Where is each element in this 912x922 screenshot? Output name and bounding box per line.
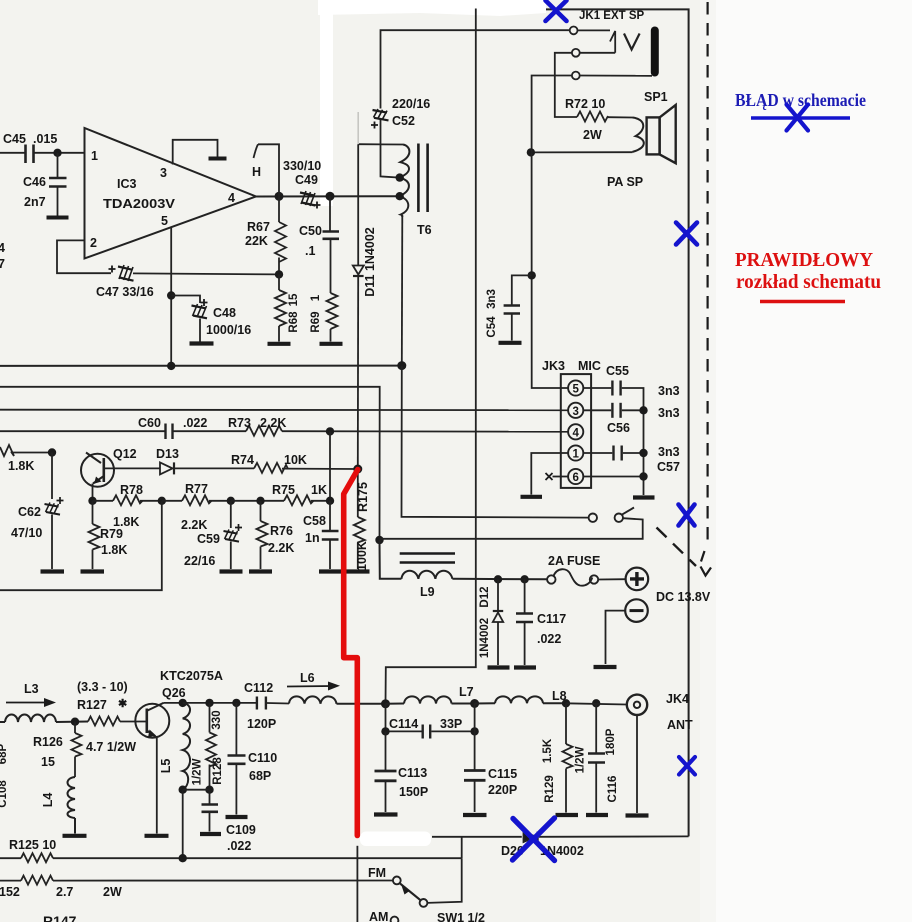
resistor R127 <box>88 717 146 726</box>
svg-text:L3: L3 <box>24 682 39 696</box>
ground (C116) <box>586 813 608 817</box>
svg-text:68P: 68P <box>0 743 9 764</box>
capacitor C58 <box>322 501 339 569</box>
svg-text:rozkład schematu: rozkład schematu <box>736 272 881 293</box>
pin 5 <box>161 214 168 228</box>
svg-text:.022: .022 <box>537 632 561 646</box>
wire L8 to JK4 <box>566 703 627 704</box>
wire minus to ground <box>606 611 626 664</box>
node supply bus T6 <box>397 361 406 370</box>
label PA SP <box>607 175 643 189</box>
node supply bus pin5 <box>167 362 175 370</box>
mic bus y410 <box>0 409 568 412</box>
svg-text:1/2W: 1/2W <box>192 758 204 785</box>
dashed mechanical link <box>657 528 697 567</box>
wire Q12 emitter to R78 row <box>92 484 94 501</box>
inductor L9 core bars <box>400 554 455 563</box>
pin 3 <box>160 166 167 180</box>
DC jack minus terminal <box>625 599 648 622</box>
node C57 <box>639 449 647 457</box>
svg-text:C46: C46 <box>23 175 46 189</box>
wire D11 top feed <box>358 143 403 145</box>
resistor R72 <box>577 112 633 122</box>
svg-text:R72 10: R72 10 <box>565 97 605 111</box>
svg-text:R78: R78 <box>120 483 143 497</box>
wire node down to mic pin5 <box>532 152 568 388</box>
resistor R77 <box>162 495 231 505</box>
svg-text:Q12: Q12 <box>113 447 137 461</box>
svg-text:R128: R128 <box>212 757 224 785</box>
label Q12 <box>113 447 137 461</box>
svg-text:2: 2 <box>90 236 97 250</box>
capacitor C113 <box>375 731 397 812</box>
svg-text:C115: C115 <box>488 767 517 781</box>
capacitor C114 <box>423 725 475 739</box>
svg-text:180P: 180P <box>605 728 617 755</box>
resistor R175 <box>354 469 365 569</box>
wire contact3 to sleeve <box>580 75 652 77</box>
label R67 22K <box>245 220 270 248</box>
ground (R129) <box>556 813 579 817</box>
red corrected-path line <box>344 470 358 836</box>
wire R77 to R75 <box>231 500 284 502</box>
label R74 10K <box>231 453 307 467</box>
svg-text:MIC: MIC <box>578 359 601 373</box>
speaker SP1 body <box>647 105 676 163</box>
svg-text:152: 152 <box>0 885 20 899</box>
svg-text:KTC2075A: KTC2075A <box>160 669 223 683</box>
electrolytic capacitor C59 <box>224 501 243 569</box>
svg-text:FM: FM <box>368 866 386 880</box>
label C45 .015 <box>3 132 57 146</box>
label C114 33P <box>389 717 462 731</box>
svg-text:3n3: 3n3 <box>658 445 680 459</box>
svg-text:34: 34 <box>0 241 5 255</box>
label C62 47/10 <box>11 505 42 540</box>
jack JK1 contact 1 <box>570 27 578 35</box>
DC jack plus terminal <box>626 568 649 591</box>
svg-text:R75: R75 <box>272 483 295 497</box>
svg-text:L5: L5 <box>159 759 173 774</box>
transistor Q26 KTC2075A <box>135 703 169 738</box>
resistor R75 <box>284 495 330 505</box>
label 3n3 (C55) <box>658 384 680 398</box>
svg-text:C47 33/16: C47 33/16 <box>96 285 154 299</box>
bootstrap hook H <box>254 144 280 196</box>
label 330/10 C49 <box>283 159 321 187</box>
resistor R76 <box>257 501 268 569</box>
label C48 1000/16 <box>206 306 251 337</box>
capacitor C117 <box>516 579 533 665</box>
jack JK1 contact 2 <box>572 49 580 57</box>
node L6/L7/C114 <box>381 699 390 708</box>
svg-text:2n7: 2n7 <box>24 195 46 209</box>
wire speaker return <box>531 151 633 153</box>
op-amp IC3 TDA2003V triangle <box>85 128 257 259</box>
plug spring V <box>624 34 640 50</box>
svg-text:L7: L7 <box>459 685 474 699</box>
svg-text:L6: L6 <box>300 671 315 685</box>
inductor L3 <box>0 715 88 723</box>
svg-text:JK4: JK4 <box>666 692 689 706</box>
label JK1 EXT SP <box>579 10 645 22</box>
svg-text:100K: 100K <box>355 541 369 571</box>
node T6 tap output <box>396 192 404 200</box>
label 2A FUSE <box>548 554 600 568</box>
svg-text:330/10: 330/10 <box>283 159 321 173</box>
ground (C column) <box>633 495 655 499</box>
svg-text:PA SP: PA SP <box>607 175 643 189</box>
wire pin6 stub with x mark <box>546 473 569 480</box>
label R77 2.2K <box>181 482 208 532</box>
svg-text:2.7: 2.7 <box>56 885 73 899</box>
label C117 .022 <box>537 612 566 646</box>
label 1.5K R129 1/2W (rotated) <box>542 738 587 803</box>
label 220/16 C52 <box>392 97 430 128</box>
node A (C45/C46/pin1 junction) <box>53 149 61 157</box>
node R128 top <box>205 699 213 707</box>
diode D13 <box>105 462 255 474</box>
label C108 68P (rotated, page edge) <box>0 743 9 807</box>
capacitor C56 <box>583 403 643 418</box>
resistor R128 <box>206 703 216 790</box>
ground (C46) <box>47 216 69 220</box>
label 3n3 (C57) <box>658 445 680 459</box>
svg-text:R125 10: R125 10 <box>9 838 56 852</box>
label D20 1N4002 <box>501 844 584 858</box>
svg-text:2A FUSE: 2A FUSE <box>548 554 600 568</box>
svg-text:R175: R175 <box>356 482 370 512</box>
annotation BLAD w schemacie <box>735 90 866 110</box>
wire fuse to DC plus <box>598 578 625 580</box>
node C110 top <box>232 699 240 707</box>
left edge resistor 1.8K (partial) <box>0 445 52 456</box>
blue X mark right border upper <box>676 223 697 245</box>
svg-text:3: 3 <box>572 406 578 418</box>
node Q12 emitter / R78 / R79 <box>88 497 96 505</box>
wire Q26 emitter <box>156 738 158 834</box>
label C55 <box>606 364 629 378</box>
capacitor C60 <box>166 424 247 440</box>
resistor R67 <box>275 196 286 274</box>
wire T6 bottom to supply node <box>401 215 404 366</box>
dashed chassis boundary <box>701 2 712 576</box>
svg-text:R77: R77 <box>185 482 208 496</box>
wire switch return y538.5 <box>380 518 643 539</box>
svg-text:D12: D12 <box>479 586 491 607</box>
svg-text:C57: C57 <box>657 460 680 474</box>
svg-text:.022: .022 <box>183 416 207 430</box>
svg-text:SP1: SP1 <box>644 90 668 104</box>
svg-text:R67: R67 <box>247 220 270 234</box>
svg-text:T6: T6 <box>417 223 432 237</box>
capacitor C62 <box>45 453 64 570</box>
svg-text:SW1 1/2: SW1 1/2 <box>437 911 485 922</box>
label C56 <box>607 421 630 435</box>
wire contact2 to tip <box>580 52 616 54</box>
svg-text:22K: 22K <box>245 234 268 248</box>
node pin6 column <box>639 472 647 480</box>
wire D20 branch down to bus A <box>461 837 463 858</box>
svg-text:AM: AM <box>369 910 388 922</box>
wire supply to power switch <box>402 366 589 518</box>
svg-text:2.2K: 2.2K <box>268 541 294 555</box>
label DC 13.8V <box>656 590 711 604</box>
node R78/R77 <box>158 497 166 505</box>
mic pin 6 <box>568 469 583 484</box>
svg-text:2W: 2W <box>103 885 122 899</box>
svg-text:10K: 10K <box>284 453 307 467</box>
ground (R69) <box>320 342 343 346</box>
ground (R68) <box>268 342 291 346</box>
wire pin5 to supply bus <box>170 228 172 367</box>
ground (C110) <box>226 815 248 819</box>
diode D12 1N4002 <box>493 579 503 665</box>
node Q12 collector <box>48 448 56 456</box>
label R76 2.2K <box>268 524 294 555</box>
svg-text:5: 5 <box>572 384 579 396</box>
svg-text:R79: R79 <box>100 527 123 541</box>
ground (C109) <box>200 832 221 836</box>
node speaker return / mic feed <box>527 148 535 156</box>
label C110 68P <box>248 751 277 783</box>
wire L5-R128 bottoms <box>183 789 210 791</box>
ground (D12) <box>488 665 510 669</box>
ground (C48) <box>190 341 214 345</box>
inductor L7 <box>386 696 475 703</box>
svg-text:R68: R68 <box>288 311 300 333</box>
label C47 33/16 <box>96 285 154 299</box>
capacitor C115 <box>464 704 486 813</box>
label T6 <box>417 223 432 237</box>
svg-text:1K: 1K <box>311 483 327 497</box>
label R79 1.8K <box>100 527 127 557</box>
ground (DC minus) <box>594 665 617 669</box>
svg-text:C60: C60 <box>138 416 161 430</box>
label R175 100K (rotated) <box>355 482 370 571</box>
svg-text:D11 1N4002: D11 1N4002 <box>363 227 377 297</box>
label R72 10 2W <box>565 97 605 142</box>
svg-text:Q26: Q26 <box>162 686 186 700</box>
svg-text:2.2K: 2.2K <box>260 416 286 430</box>
pin 1 <box>91 149 98 163</box>
node switch-return/L9 junction <box>375 536 383 544</box>
chassis border top <box>546 9 689 836</box>
mic bus y431 left segment <box>0 430 165 432</box>
svg-text:4: 4 <box>572 427 579 439</box>
label R69 1 (rotated) <box>310 294 322 332</box>
svg-text:3n3: 3n3 <box>658 384 680 398</box>
wire L5 bottom to bus <box>182 790 184 859</box>
svg-text:220P: 220P <box>488 783 517 797</box>
node T6 tap C52 <box>396 173 404 181</box>
svg-text:6: 6 <box>572 472 578 484</box>
capacitor C112 <box>257 697 289 710</box>
white-out blob bottom <box>360 832 431 847</box>
resistor R73 <box>246 426 568 436</box>
mic pin 1 <box>568 445 583 460</box>
svg-text:C117: C117 <box>537 612 566 626</box>
svg-text:68P: 68P <box>249 769 271 783</box>
svg-text:C114: C114 <box>389 717 418 731</box>
svg-text:C52: C52 <box>392 114 415 128</box>
svg-text:L9: L9 <box>420 585 435 599</box>
label C58 1n <box>303 514 326 545</box>
band switch lever <box>400 883 421 900</box>
label D12 1N4002 (rotated) <box>479 586 491 658</box>
mic pin 3 <box>568 403 583 418</box>
svg-text:C116: C116 <box>607 776 619 803</box>
label C54 3n3 (rotated) <box>486 289 498 337</box>
node R77/C59 <box>227 497 235 505</box>
label D13 <box>156 447 179 461</box>
wire C52 branch / T6 tap <box>381 30 570 177</box>
node C117 <box>520 575 528 583</box>
label L9 <box>420 585 435 599</box>
transistor Q12 <box>81 453 114 487</box>
resistor R74 <box>254 463 358 473</box>
node L7/C115 <box>470 699 479 708</box>
label R126 15 <box>33 735 63 769</box>
svg-text:15: 15 <box>288 293 300 306</box>
label SP1 <box>644 90 668 104</box>
node C56 <box>639 406 647 414</box>
node output/H/R67 <box>275 192 284 201</box>
node L3/R126 <box>71 718 79 726</box>
power switch contacts <box>589 508 634 522</box>
band switch SW1 FM contact <box>393 877 401 885</box>
capacitor C116 <box>588 703 605 812</box>
node R67/R68/C47 <box>275 270 283 278</box>
svg-text:(3.3 - 10): (3.3 - 10) <box>77 680 128 694</box>
svg-text:C55: C55 <box>606 364 629 378</box>
resistor R129 <box>563 703 573 812</box>
node R76 <box>256 497 264 505</box>
svg-text:C110: C110 <box>248 751 277 765</box>
svg-text:JK1 EXT SP: JK1 EXT SP <box>579 10 645 22</box>
bus B y880 with R152 <box>0 876 393 885</box>
node R128 bottom <box>205 786 213 794</box>
label FM <box>368 866 386 880</box>
wire bus A to AM contact <box>427 858 461 903</box>
node C54 tap <box>528 271 536 279</box>
svg-text:C56: C56 <box>607 421 630 435</box>
inductor L8 <box>475 696 566 703</box>
label R125 10 <box>9 838 56 852</box>
ground (pin1) <box>521 495 543 499</box>
collector bus wire <box>164 702 257 704</box>
input coupling capacitor C45 <box>0 145 85 164</box>
svg-text:.1: .1 <box>305 244 315 258</box>
label 152 2.7 2W <box>0 885 122 899</box>
bus A y858 with R125 <box>0 853 462 862</box>
electrolytic capacitor C48 <box>171 296 207 342</box>
resistor R69 <box>327 293 338 342</box>
svg-text:.015: .015 <box>33 132 57 146</box>
node C49 output <box>326 192 335 201</box>
label C113 150P <box>398 766 428 799</box>
svg-text:R76: R76 <box>270 524 293 538</box>
svg-text:C59: C59 <box>197 532 220 546</box>
label 180P C116 (rotated) <box>605 728 619 802</box>
wire C114 row <box>386 704 422 732</box>
capacitor C109 <box>202 790 219 832</box>
label C57 <box>657 460 680 474</box>
svg-text:D13: D13 <box>156 447 179 461</box>
label L4 (rotated) <box>41 793 55 808</box>
svg-text:330: 330 <box>211 710 223 729</box>
ground (R79) <box>81 569 105 573</box>
capacitor C50 <box>323 196 340 293</box>
svg-text:1.5K: 1.5K <box>542 738 554 763</box>
svg-text:3n3: 3n3 <box>658 406 680 420</box>
label (3.3 - 10) <box>77 680 128 694</box>
pin 4 <box>228 191 235 205</box>
supply bus y366 <box>0 365 402 367</box>
partial left-edge labels 34 / 57 <box>0 241 5 271</box>
diode D11 1N4002 <box>353 144 364 469</box>
label C115 220P <box>488 767 517 797</box>
ground (C117) <box>514 665 536 669</box>
capacitor C57 <box>583 446 643 461</box>
electrolytic capacitor C49 <box>300 191 321 209</box>
label C112 120P <box>244 681 276 731</box>
svg-text:BŁĄD w schemacie: BŁĄD w schemacie <box>735 90 866 110</box>
svg-text:120P: 120P <box>247 717 276 731</box>
ground (JK4) <box>626 813 649 817</box>
svg-text:57: 57 <box>0 257 5 271</box>
svg-text:R129: R129 <box>544 775 556 803</box>
svg-text:C112: C112 <box>244 681 273 695</box>
svg-text:5: 5 <box>161 214 168 228</box>
label SW1 1/2 <box>437 911 485 922</box>
svg-text:220/16: 220/16 <box>392 97 430 111</box>
capacitor C110 <box>228 703 246 815</box>
label R68 15 (rotated) <box>288 293 300 333</box>
ground (C59) <box>220 569 243 573</box>
svg-text:R73: R73 <box>228 416 251 430</box>
svg-text:4: 4 <box>228 191 235 205</box>
svg-text:H: H <box>252 165 261 179</box>
electrolytic capacitor C52 <box>371 109 389 129</box>
node R74/R175/red <box>353 465 362 474</box>
arrow L3 <box>6 698 56 707</box>
transformer T6 primary coil <box>400 145 410 218</box>
ground (C54) <box>499 341 522 345</box>
node L5 bottom <box>179 786 187 794</box>
node pin5/C48 junction <box>167 291 175 299</box>
wire pin2 feedback loop <box>57 240 111 273</box>
white-out band over erased top wire <box>318 0 546 16</box>
svg-text:TDA2003V: TDA2003V <box>103 197 176 211</box>
label R78 1.8K <box>113 483 143 529</box>
ground (C115) <box>463 813 487 817</box>
svg-text:.022: .022 <box>227 839 251 853</box>
ground (R76) <box>249 569 272 573</box>
svg-text:C62: C62 <box>18 505 41 519</box>
svg-text:47/10: 47/10 <box>11 526 42 540</box>
label 330 R128 1/2W (rotated) <box>192 710 225 785</box>
svg-text:1: 1 <box>572 449 579 461</box>
resistor R78 <box>93 495 162 505</box>
inductor L4 <box>68 777 76 834</box>
resistor R68 <box>275 274 286 341</box>
svg-text:C58: C58 <box>303 514 326 528</box>
label KTC2075A Q26 <box>160 669 223 700</box>
svg-text:1n: 1n <box>305 531 320 545</box>
speaker SP1 voice coil <box>633 118 644 152</box>
label D11 1N4002 (rotated) <box>363 227 377 297</box>
